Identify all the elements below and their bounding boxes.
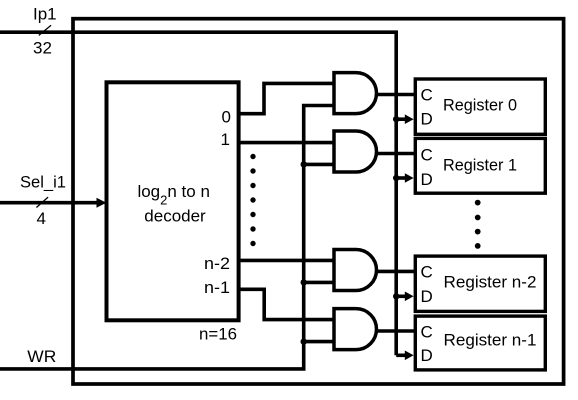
svg-text:n=16: n=16: [199, 325, 237, 344]
svg-text:Ip1: Ip1: [33, 4, 57, 23]
svg-text:C: C: [421, 145, 433, 164]
register Register 0 box: [415, 79, 545, 134]
svg-text:C: C: [421, 263, 433, 282]
svg-text:n-2: n-2: [204, 254, 230, 273]
svg-text:Sel_i1: Sel_i1: [20, 173, 66, 192]
arrowhead D input Register 0: [405, 114, 414, 124]
arrowhead D input Register n-1: [405, 351, 414, 361]
svg-text:n-1: n-1: [204, 278, 230, 297]
register Register n-2 box: [415, 256, 545, 311]
wire WR horizontal and vertical trunk: [0, 106, 335, 369]
svg-text:C: C: [421, 322, 433, 341]
svg-text:decoder: decoder: [144, 207, 206, 226]
ellipsis dots registers: [475, 200, 481, 249]
junction dot WR/U3: [301, 161, 307, 167]
wire D-input branch to Register 1: [396, 176, 406, 180]
wire AND U3 output to Register 1 pin C: [376, 152, 418, 156]
and-gate U4: [334, 250, 376, 291]
svg-text:WR: WR: [27, 347, 56, 366]
wire AND U2 output to Register 0 pin C: [376, 93, 418, 97]
wire WR branch to AND gate U5: [304, 340, 335, 344]
and-gate U2: [334, 73, 376, 114]
ellipsis dots decoder outputs: [250, 154, 255, 246]
svg-text:D: D: [421, 110, 433, 129]
and-gate U5: [334, 309, 376, 350]
svg-text:D: D: [421, 346, 433, 365]
svg-text:0: 0: [222, 107, 231, 126]
svg-text:1: 1: [221, 130, 230, 149]
decoder U1 box: [107, 82, 239, 320]
arrowhead D input Register n-2: [405, 292, 414, 302]
wire D-input branch to Register n-2: [396, 294, 406, 298]
and-gate U3: [334, 131, 376, 172]
junction dot WR/U5: [301, 338, 307, 344]
svg-text:4: 4: [37, 209, 46, 228]
wire D-input branch to Register n-1: [396, 353, 406, 357]
wire D-input branch to Register 0: [396, 117, 406, 121]
wire WR branch to AND gate U3: [304, 163, 335, 167]
wire decoder output n-2 to AND gate U4: [239, 259, 335, 263]
wire AND U4 output to Register n-2 pin C: [376, 270, 418, 274]
register Register 1 box: [415, 138, 545, 193]
wire decoder output n-1 to AND gate U5: [239, 289, 335, 319]
wire Sel_i1 input: [0, 201, 97, 205]
arrowhead Sel_i1 into decoder: [97, 198, 107, 208]
wire AND U5 output to Register n-1 pin C: [376, 329, 418, 333]
bus width slash Sel_i1: [36, 197, 48, 207]
junction dot Ip1/Register 1 D: [393, 175, 399, 181]
junction dot Ip1/Register n-2 D: [393, 293, 399, 299]
wire decoder output 1 to AND gate U3: [239, 141, 335, 145]
svg-text:32: 32: [33, 39, 52, 58]
arrowhead D input Register 1: [405, 173, 414, 183]
wire decoder output 0 to AND gate U2: [239, 83, 335, 113]
junction dot Ip1/Register 0 D: [393, 116, 399, 122]
wire WR branch to AND gate U4: [304, 281, 335, 285]
svg-text:D: D: [421, 170, 433, 189]
junction dot WR/U4: [301, 279, 307, 285]
bus width slash Ip1: [39, 25, 51, 35]
svg-text:Register n-2: Register n-2: [444, 272, 537, 291]
svg-text:Register 1: Register 1: [443, 156, 517, 175]
register Register n-1 box: [415, 316, 545, 370]
svg-text:C: C: [421, 86, 433, 105]
svg-text:Register n-1: Register n-1: [444, 330, 537, 349]
module boundary box: [73, 19, 564, 384]
wire Ip1 bus horizontal and vertical distribution: [0, 32, 396, 355]
svg-text:D: D: [421, 287, 433, 306]
svg-text:Register 0: Register 0: [443, 96, 517, 115]
